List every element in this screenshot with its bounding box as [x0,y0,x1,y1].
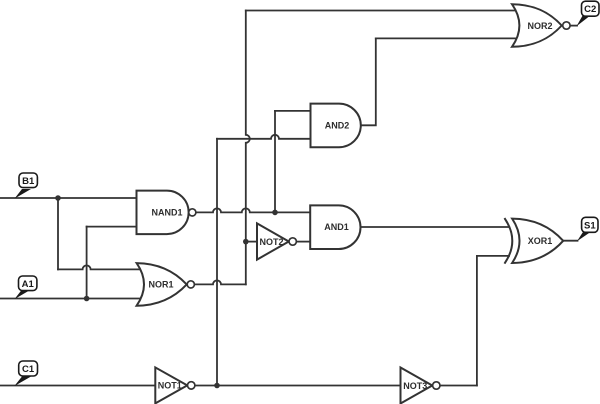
wire NOR1 output with hop over x=217 [195,280,246,284]
svg-text:NOT2: NOT2 [259,237,283,247]
wire XOR1 output to S1 flag [563,240,577,242]
svg-text:NOR1: NOR1 [148,280,173,290]
wire AND1 output to XOR1 input A [361,226,509,228]
svg-text:S1: S1 [584,220,596,231]
svg-text:NOR2: NOR2 [527,21,552,31]
wire NOR2 output to C2 flag [570,25,577,27]
wire AND2 input A horizontal [275,110,311,112]
XOR gate XOR1 [505,219,563,263]
wire top to NOR2 input A [246,10,518,12]
NOT gate NOT2 [257,223,296,259]
svg-text:A1: A1 [22,279,35,290]
AND gate AND2 [311,104,361,148]
wire NOT2 output to AND1 input B [296,241,310,243]
wire NOT2 input [246,241,257,243]
svg-text:C1: C1 [22,364,35,375]
NOT gate NOT3 [401,368,440,404]
wire vertical to AND2 input A [274,111,276,212]
wire NAND1 output to AND1 input A with hops [196,208,310,212]
junction at B1 branch [55,195,61,201]
NAND gate NAND1 [137,191,196,235]
wire AND2 output to riser [361,38,376,125]
input flag B1 [15,173,38,199]
NOT gate NOT1 [155,367,195,403]
junction NOT1 output branch [214,383,220,389]
NOR gate NOR2 [512,4,570,47]
NOR gate NOR1 [137,263,195,306]
svg-text:NOT1: NOT1 [158,381,182,391]
wire XOR1 input B horizontal [477,255,509,257]
output flag C2 [577,1,600,26]
wire NOT1 output to NOT3 input [195,385,401,387]
junction NOT2 input branch [243,239,249,245]
input flag A1 [15,276,37,299]
svg-text:AND1: AND1 [324,222,349,232]
wire to NOR1 input A with hop over x=86.6 [58,265,141,269]
wire NOT3 output [440,385,477,387]
wire vertical NOT3 output riser [476,256,478,386]
AND gate AND1 [310,205,360,249]
svg-text:NOT3: NOT3 [403,381,427,391]
wire vertical NOR1 output riser with hop over y=138.8 [246,11,250,285]
junction at A1 branch [84,296,90,302]
wire B1 to NAND1 input A [0,197,137,199]
svg-text:XOR1: XOR1 [528,236,553,246]
input flag C1 [14,361,37,386]
wire riser to NOR2 input B [376,37,516,39]
svg-text:C2: C2 [584,4,596,15]
wire vertical NOT1 output riser [216,139,218,386]
wire A1 to NOR1 input B [0,298,141,300]
wire vertical A1 up to NAND1 input B [86,227,88,299]
wire C1 to NOT1 input [0,385,155,387]
svg-text:NAND1: NAND1 [151,208,182,218]
junction NAND1 output branch [272,210,278,216]
wire NOT1 output up to AND2 input B with hop over x=275 [217,135,311,139]
wire NAND1 input B horizontal [87,226,137,228]
svg-text:AND2: AND2 [325,121,350,131]
output flag S1 [577,217,598,241]
svg-text:B1: B1 [22,176,35,187]
wire vertical branch B1 down [57,198,59,269]
